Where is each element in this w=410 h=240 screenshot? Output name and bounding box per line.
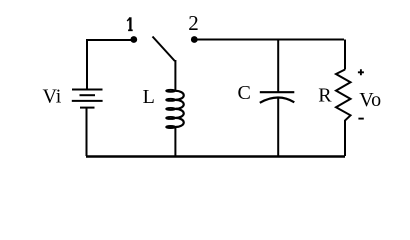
svg-text:C: C: [238, 82, 251, 104]
svg-text:R: R: [318, 85, 332, 107]
svg-text:Vo: Vo: [359, 89, 381, 111]
svg-text:2: 2: [188, 11, 199, 35]
svg-text:Vi: Vi: [43, 86, 62, 108]
svg-text:L: L: [143, 86, 155, 108]
